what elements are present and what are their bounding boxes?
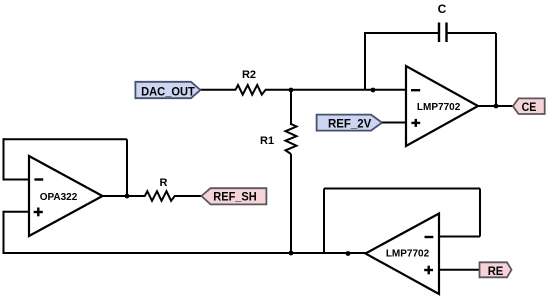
wire U2 output to R bbox=[102, 195, 146, 197]
wire feedback right vertical (U1 loop) bbox=[495, 33, 497, 107]
node junction dot U2 output bbox=[125, 194, 130, 199]
op-amp U2 OPA322 bbox=[29, 156, 103, 236]
capacitor C bbox=[438, 2, 447, 42]
op-amp U3 LMP7702 (mirrored) bbox=[366, 214, 440, 295]
wire U2 feedback: - input bbox=[4, 179, 30, 181]
svg-text:C: C bbox=[438, 2, 447, 16]
node junction dot U1 output bbox=[494, 104, 499, 109]
wire U2 + input bbox=[4, 211, 30, 213]
label REF_2V net flag bbox=[317, 115, 382, 131]
resistor R2 bbox=[236, 69, 266, 95]
wire U3 + input to RE bbox=[439, 269, 480, 271]
wire REF_2V to U1 + input bbox=[382, 122, 406, 124]
wire R2 to op-amp U1 inverting input bbox=[265, 89, 406, 91]
node junction dot R1 bottom bbox=[289, 251, 294, 256]
svg-text:LMP7702: LMP7702 bbox=[417, 102, 461, 113]
resistor R bbox=[145, 177, 175, 201]
wire U1 output bbox=[477, 105, 513, 107]
svg-text:R2: R2 bbox=[242, 69, 256, 81]
svg-text:DAC_OUT: DAC_OUT bbox=[141, 84, 195, 98]
node junction dot feedback top bbox=[371, 88, 376, 93]
wire U3 feedback right vertical bbox=[479, 189, 481, 237]
wire feedback top left segment to capacitor bbox=[364, 32, 438, 34]
svg-text:LMP7702: LMP7702 bbox=[386, 248, 430, 259]
label DAC_OUT net flag bbox=[135, 82, 200, 99]
wire bottom rail bbox=[3, 252, 367, 254]
label RE net flag bbox=[480, 262, 512, 278]
wire U3 feedback top bbox=[324, 188, 480, 190]
wire capacitor to feedback right vertical bbox=[448, 32, 497, 34]
wire U3 feedback left vertical bbox=[323, 189, 325, 254]
wire U2 feedback top bbox=[3, 138, 128, 140]
wire R1 upper segment bbox=[290, 90, 292, 125]
svg-text:OPA322: OPA322 bbox=[40, 192, 78, 203]
wire R to REF_SH bbox=[174, 195, 202, 197]
wire feedback left vertical (U1 loop) bbox=[364, 33, 366, 90]
wire DAC_OUT to R2 bbox=[199, 89, 236, 91]
svg-text:REF_SH: REF_SH bbox=[213, 190, 257, 204]
svg-text:RE: RE bbox=[488, 264, 504, 278]
label REF_SH net flag bbox=[202, 188, 267, 204]
wire U2 feedback right vertical bbox=[126, 139, 128, 196]
op-amp U1 LMP7702 bbox=[406, 66, 478, 146]
wire U2 feedback left vertical bbox=[3, 138, 5, 180]
wire U3 - input bbox=[439, 236, 480, 238]
node junction dot R1 top bbox=[289, 88, 294, 93]
svg-text:REF_2V: REF_2V bbox=[328, 117, 371, 131]
svg-text:R1: R1 bbox=[260, 135, 274, 147]
node junction dot rail to U3 bbox=[346, 251, 351, 256]
wire R1 lower segment bbox=[290, 154, 292, 253]
resistor R1 bbox=[260, 124, 297, 154]
svg-text:CE: CE bbox=[522, 100, 537, 114]
label CE net flag bbox=[513, 98, 545, 114]
wire U2 + input left vertical down to rail bbox=[3, 211, 5, 253]
svg-text:R: R bbox=[160, 177, 168, 189]
